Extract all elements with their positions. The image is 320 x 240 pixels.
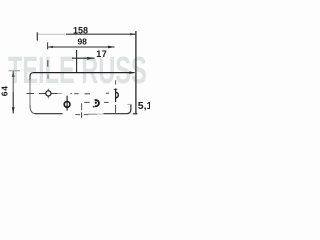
left arrowhead of 98 dim [48, 46, 53, 48]
right slot arc [116, 92, 119, 98]
right slot centreline bottom dash [115, 105, 117, 113]
top extension line of 64 dim [9, 70, 21, 72]
left end tick of 158 dim [36, 32, 38, 40]
lamp centre mark vertical dash [81, 103, 83, 110]
body bottom edge left segment [35, 113, 63, 115]
svg-text:TEILE RUSS: TEILE RUSS [8, 48, 147, 91]
dimension line 158 (dark right part) [66, 33, 136, 35]
cable entry speck [93, 106, 95, 108]
body left edge [29, 80, 31, 107]
bottom edge piece under right vertical [133, 113, 138, 115]
bottom arrowhead of 64 dim [12, 107, 15, 113]
body top-left corner [30, 73, 34, 81]
dimension line 64 [12, 71, 14, 92]
arrowhead at right end of top edge [129, 71, 135, 74]
cable entry centreline right dash [104, 101, 109, 103]
right arrowhead of 98 dim [108, 46, 115, 49]
svg-text:17: 17 [96, 49, 107, 59]
lamp centre mark vertical tick [81, 112, 83, 117]
cable entry (keyhole) arc [95, 100, 99, 106]
left hole centreline (vertical dash-dot) [47, 42, 50, 98]
svg-text:98: 98 [77, 37, 87, 47]
left mounting hole [46, 91, 51, 96]
body bottom edge right segment [104, 113, 128, 115]
side view foot vertical [130, 104, 132, 109]
top arrowhead of 64 dim [12, 71, 15, 77]
screw hole centreline [66, 96, 68, 111]
side view right vertical (extension to 158 dim) [135, 31, 137, 114]
svg-text:64: 64 [0, 85, 9, 96]
dimension line 158 (light left part) [37, 33, 67, 35]
cable entry centreline left dash [84, 101, 89, 103]
horizontal centreline (dash-dot) [27, 92, 110, 95]
right slot centreline top dash [115, 80, 117, 84]
right slot vertical [115, 88, 117, 102]
body bottom edge middle segment [88, 113, 97, 115]
body top edge [33, 72, 135, 74]
dimension line 17 [72, 57, 95, 59]
body bottom-left corner [30, 106, 36, 114]
cable entry inner dot [95, 102, 97, 104]
right slot top cap [114, 88, 117, 90]
extension line for 17 dim [76, 50, 78, 73]
side view foot top faint ledge [127, 103, 130, 105]
right arrowhead of 158 dim [130, 33, 135, 35]
dimension line 98 [47, 46, 114, 48]
svg-text:5,1: 5,1 [138, 100, 150, 112]
side view foot corner arc [127, 109, 131, 114]
body bottom edge faint piece [97, 113, 104, 115]
screw hole [64, 102, 70, 108]
lamp centre mark horizontal dash left [75, 114, 80, 116]
arrowhead of 17 dim [87, 57, 94, 60]
lamp centre mark horizontal dash right [84, 114, 88, 116]
